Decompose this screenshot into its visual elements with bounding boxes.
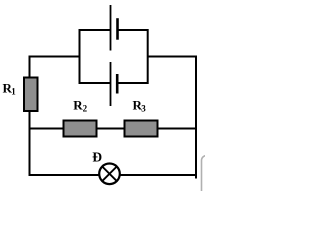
svg-text:2: 2	[83, 104, 88, 114]
svg-text:1: 1	[11, 87, 16, 97]
svg-text:Đ: Đ	[92, 149, 102, 164]
svg-text:3: 3	[141, 104, 146, 114]
